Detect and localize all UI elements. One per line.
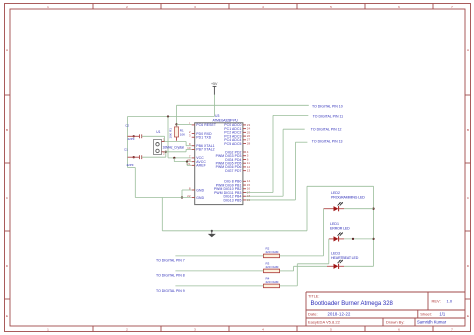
svg-text:22PF: 22PF xyxy=(127,163,134,167)
svg-text:10K: 10K xyxy=(180,133,185,137)
svg-text:A: A xyxy=(6,48,8,52)
svg-text:PC6 RESET: PC6 RESET xyxy=(196,123,216,127)
svg-text:1.0: 1.0 xyxy=(447,299,453,304)
svg-text:HEARTBEAT LED: HEARTBEAT LED xyxy=(331,256,359,260)
svg-text:PC5 ADC5: PC5 ADC5 xyxy=(224,142,241,146)
svg-text:C2: C2 xyxy=(125,123,129,127)
svg-text:TO DIGITAL PIN 8: TO DIGITAL PIN 8 xyxy=(156,274,185,278)
svg-text:+5V: +5V xyxy=(211,82,218,86)
svg-text:Samridh Kumar: Samridh Kumar xyxy=(417,320,447,325)
svg-text:22PF: 22PF xyxy=(128,137,135,141)
svg-text:DIG13 PB5: DIG13 PB5 xyxy=(223,198,241,202)
svg-text:TO DIGITAL PIN 9: TO DIGITAL PIN 9 xyxy=(156,289,185,293)
svg-text:TO DIGITAL PIN 13: TO DIGITAL PIN 13 xyxy=(312,140,343,144)
svg-text:REV:: REV: xyxy=(432,299,441,304)
svg-text:220 OHM: 220 OHM xyxy=(266,280,279,284)
svg-text:R1: R1 xyxy=(169,128,173,132)
svg-text:13: 13 xyxy=(247,169,251,173)
svg-text:GND: GND xyxy=(196,188,204,192)
svg-text:Drawn By:: Drawn By: xyxy=(386,320,404,325)
svg-text:TO DIGITAL PIN 10: TO DIGITAL PIN 10 xyxy=(312,104,343,108)
svg-text:220 OHM: 220 OHM xyxy=(266,265,279,269)
svg-text:16MHz_Crystal: 16MHz_Crystal xyxy=(163,146,185,150)
svg-text:EasyEDA V5.8.22: EasyEDA V5.8.22 xyxy=(308,320,341,325)
svg-text:ERROR LED: ERROR LED xyxy=(330,226,350,230)
svg-text:PB7 XTAL2: PB7 XTAL2 xyxy=(196,148,214,152)
svg-text:PD1 TXD: PD1 TXD xyxy=(196,136,211,140)
svg-text:GND: GND xyxy=(196,196,204,200)
svg-text:A: A xyxy=(467,48,469,52)
svg-text:220 OHM: 220 OHM xyxy=(266,250,279,254)
svg-text:ATMEGA328P-PU: ATMEGA328P-PU xyxy=(213,119,239,123)
svg-text:B: B xyxy=(6,128,8,132)
svg-text:Sheet:: Sheet: xyxy=(420,311,432,316)
svg-text:28: 28 xyxy=(247,141,251,145)
svg-text:AREF: AREF xyxy=(196,164,205,168)
svg-text:DIG7 PD7: DIG7 PD7 xyxy=(225,169,241,173)
svg-text:B: B xyxy=(467,128,469,132)
svg-text:Date:: Date: xyxy=(308,311,318,316)
svg-text:C1: C1 xyxy=(124,147,128,151)
svg-text:10K: 10K xyxy=(169,133,173,138)
svg-text:1/1: 1/1 xyxy=(439,311,445,316)
svg-text:TO DIGITAL PIN 12: TO DIGITAL PIN 12 xyxy=(311,128,342,132)
svg-text:2018-12-22: 2018-12-22 xyxy=(328,311,351,316)
svg-text:TO DIGITAL PIN 7: TO DIGITAL PIN 7 xyxy=(156,259,185,263)
svg-text:E: E xyxy=(6,314,8,318)
svg-text:PROGRAMMING LED: PROGRAMMING LED xyxy=(331,195,365,199)
svg-text:TO DIGITAL PIN 11: TO DIGITAL PIN 11 xyxy=(313,114,343,118)
svg-text:E: E xyxy=(467,314,469,318)
svg-text:TITLE:: TITLE: xyxy=(308,295,319,299)
svg-text:Bootloader Burner Atmega 328: Bootloader Burner Atmega 328 xyxy=(311,301,394,307)
svg-text:U3: U3 xyxy=(215,114,219,118)
svg-text:U1: U1 xyxy=(156,130,160,134)
